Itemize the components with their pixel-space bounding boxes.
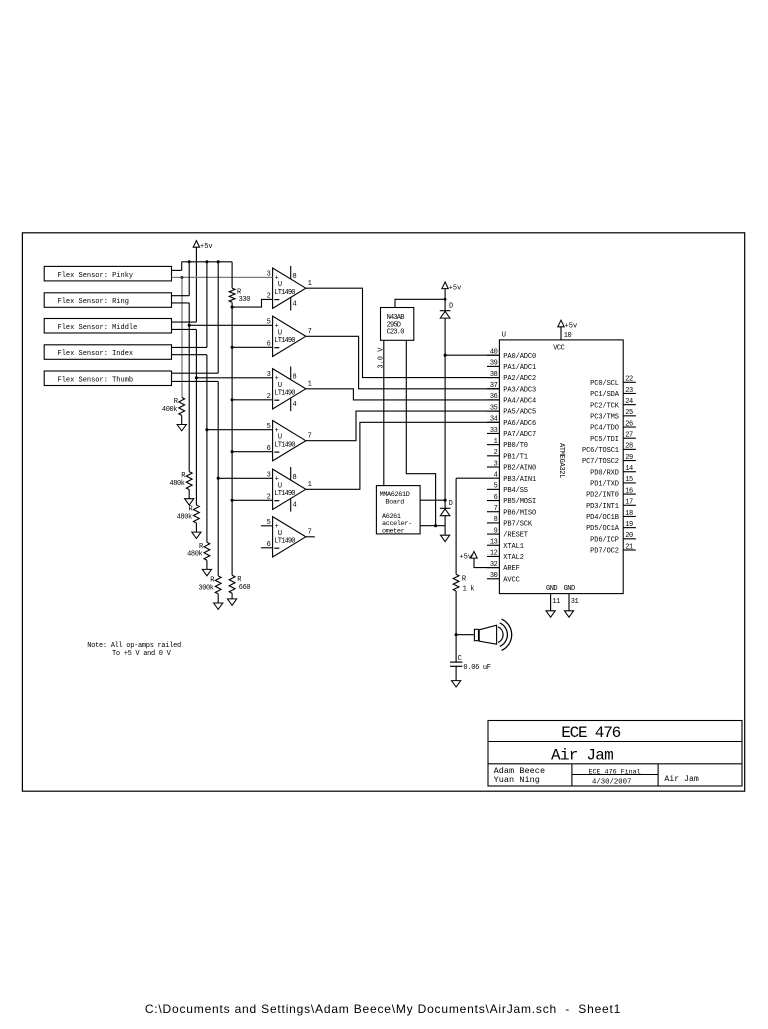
svg-text:PD3/INT1: PD3/INT1 — [586, 503, 619, 511]
svg-text:10: 10 — [564, 332, 572, 340]
svg-text:PB0/T0: PB0/T0 — [503, 442, 528, 450]
svg-text:LT1490: LT1490 — [274, 490, 295, 498]
svg-text:26: 26 — [625, 420, 633, 428]
svg-text:4: 4 — [293, 301, 297, 309]
svg-text:22: 22 — [625, 376, 633, 384]
svg-text:PB2/AIN0: PB2/AIN0 — [503, 465, 536, 473]
svg-text:19: 19 — [625, 521, 633, 529]
svg-text:660: 660 — [239, 584, 251, 592]
svg-text:1: 1 — [308, 380, 312, 388]
svg-text:Flex Sensor: Index: Flex Sensor: Index — [58, 350, 134, 358]
svg-text:PA7/ADC7: PA7/ADC7 — [503, 431, 536, 439]
svg-text:PD4/OC1B: PD4/OC1B — [586, 514, 619, 522]
svg-text:PA3/ADC3: PA3/ADC3 — [503, 386, 536, 394]
svg-text:PC6/TOSC1: PC6/TOSC1 — [582, 447, 619, 455]
svg-text:18: 18 — [625, 510, 633, 518]
svg-text:Air Jam: Air Jam — [551, 747, 613, 765]
svg-text:8: 8 — [293, 474, 297, 482]
svg-text:To +5 V and 0 V: To +5 V and 0 V — [112, 650, 172, 658]
svg-text:38: 38 — [490, 371, 498, 379]
svg-text:1: 1 — [308, 481, 312, 489]
svg-text:LT1490: LT1490 — [274, 289, 295, 297]
svg-text:PD7/OC2: PD7/OC2 — [590, 548, 619, 556]
svg-text:29: 29 — [625, 454, 633, 462]
svg-text:3: 3 — [494, 460, 498, 468]
svg-text:PC1/SDA: PC1/SDA — [590, 391, 620, 399]
svg-text:PD2/INT0: PD2/INT0 — [586, 492, 619, 500]
svg-text:17: 17 — [625, 499, 633, 507]
svg-text:9: 9 — [494, 527, 498, 535]
svg-text:PA2/ADC2: PA2/ADC2 — [503, 375, 536, 383]
svg-text:U: U — [502, 332, 506, 340]
svg-text:15: 15 — [625, 476, 633, 484]
svg-text:PA6/ADC6: PA6/ADC6 — [503, 420, 536, 428]
svg-text:PD0/RXD: PD0/RXD — [590, 469, 619, 477]
svg-text:7: 7 — [308, 432, 312, 440]
svg-text:ECE 476: ECE 476 — [561, 724, 620, 742]
svg-text:ometer: ometer — [382, 527, 405, 535]
svg-text:1: 1 — [494, 438, 498, 446]
svg-text:PC3/TMS: PC3/TMS — [590, 413, 619, 421]
svg-text:4/30/2007: 4/30/2007 — [592, 778, 631, 786]
svg-text:+5v: +5v — [459, 553, 472, 561]
svg-text:Flex Sensor: Ring: Flex Sensor: Ring — [58, 298, 129, 306]
svg-text:400k: 400k — [162, 406, 177, 414]
svg-text:23: 23 — [625, 387, 633, 395]
svg-text:PB4/SS: PB4/SS — [503, 487, 528, 495]
svg-text:8: 8 — [293, 273, 297, 281]
svg-text:Flex Sensor: Middle: Flex Sensor: Middle — [58, 324, 138, 332]
svg-text:PA1/ADC1: PA1/ADC1 — [503, 364, 536, 372]
svg-text:XTAL1: XTAL1 — [503, 543, 524, 551]
svg-text:1 k: 1 k — [463, 586, 475, 594]
svg-text:PC4/TDO: PC4/TDO — [590, 425, 619, 433]
svg-text:480k: 480k — [187, 551, 202, 559]
svg-text:Air Jam: Air Jam — [664, 774, 698, 784]
svg-text:7: 7 — [308, 328, 312, 336]
svg-text:XTAL2: XTAL2 — [503, 554, 524, 562]
svg-text:PC0/SCL: PC0/SCL — [590, 380, 619, 388]
svg-text:PC2/TCK: PC2/TCK — [590, 402, 620, 410]
svg-text:PC7/TOSC2: PC7/TOSC2 — [582, 458, 619, 466]
svg-text:11: 11 — [552, 598, 560, 606]
svg-text:PD6/ICP: PD6/ICP — [590, 536, 619, 544]
svg-text:40: 40 — [490, 349, 498, 357]
svg-text:300k: 300k — [198, 584, 213, 592]
svg-text:20: 20 — [625, 532, 633, 540]
svg-text:D: D — [449, 500, 453, 508]
svg-text:+5v: +5v — [565, 323, 578, 331]
svg-text:14: 14 — [625, 465, 633, 473]
svg-text:PA0/ADC0: PA0/ADC0 — [503, 353, 536, 361]
svg-text:21: 21 — [625, 543, 633, 551]
svg-text:2: 2 — [494, 449, 498, 457]
svg-text:+5v: +5v — [449, 284, 462, 292]
svg-text:330: 330 — [239, 296, 251, 304]
svg-text:LT1490: LT1490 — [274, 441, 295, 449]
svg-text:39: 39 — [490, 360, 498, 368]
svg-text:30: 30 — [490, 572, 498, 580]
svg-text:PD5/OC1A: PD5/OC1A — [586, 525, 620, 533]
svg-text:AVCC: AVCC — [503, 576, 519, 584]
svg-text:7: 7 — [308, 528, 312, 536]
svg-text:35: 35 — [490, 404, 498, 412]
svg-text:5: 5 — [494, 483, 498, 491]
svg-text:LT1490: LT1490 — [274, 337, 295, 345]
svg-text:8: 8 — [494, 516, 498, 524]
svg-text:16: 16 — [625, 487, 633, 495]
svg-text:34: 34 — [490, 416, 498, 424]
svg-text:28: 28 — [625, 443, 633, 451]
svg-text:Flex Sensor: Thumb: Flex Sensor: Thumb — [58, 376, 134, 384]
svg-text:PB5/MOSI: PB5/MOSI — [503, 498, 536, 506]
svg-text:PC5/TDI: PC5/TDI — [590, 436, 619, 444]
svg-text:7: 7 — [494, 505, 498, 513]
svg-text:LT1490: LT1490 — [274, 389, 295, 397]
svg-text:8: 8 — [293, 374, 297, 382]
svg-text:ATMEGA32L: ATMEGA32L — [557, 443, 565, 478]
svg-text:PB6/MISO: PB6/MISO — [503, 509, 536, 517]
svg-text:12: 12 — [490, 550, 498, 558]
svg-text:25: 25 — [625, 409, 633, 417]
svg-text:VCC: VCC — [553, 344, 564, 352]
svg-text:Note: All op-amps railed: Note: All op-amps railed — [87, 642, 181, 650]
svg-text:27: 27 — [625, 432, 633, 440]
svg-text:+5v: +5v — [200, 243, 213, 251]
svg-text:24: 24 — [625, 398, 633, 406]
svg-text:480k: 480k — [169, 480, 184, 488]
svg-text:C23.0: C23.0 — [387, 329, 405, 337]
svg-text:31: 31 — [571, 598, 579, 606]
svg-text:PB1/T1: PB1/T1 — [503, 453, 528, 461]
svg-text:13: 13 — [490, 539, 498, 547]
svg-text:PA4/ADC4: PA4/ADC4 — [503, 398, 536, 406]
svg-text:Flex Sensor: Pinky: Flex Sensor: Pinky — [58, 272, 134, 280]
svg-text:Yuan Ning: Yuan Ning — [494, 775, 540, 785]
svg-text:PB3/AIN1: PB3/AIN1 — [503, 476, 536, 484]
svg-text:AREF: AREF — [503, 565, 519, 573]
svg-text:/RESET: /RESET — [503, 532, 528, 540]
svg-text:37: 37 — [490, 382, 498, 390]
svg-text:LT1490: LT1490 — [274, 537, 295, 545]
svg-text:PA5/ADC5: PA5/ADC5 — [503, 409, 536, 417]
svg-text:PB7/SCK: PB7/SCK — [503, 521, 533, 529]
svg-text:480k: 480k — [177, 513, 192, 521]
svg-text:Board: Board — [385, 498, 404, 506]
svg-text:4: 4 — [293, 502, 297, 510]
svg-text:PD1/TXD: PD1/TXD — [590, 481, 619, 489]
svg-text:ECE 476 Final: ECE 476 Final — [589, 768, 641, 776]
svg-text:D: D — [449, 303, 453, 311]
svg-text:C:\Documents and Settings\Adam: C:\Documents and Settings\Adam Beece\My … — [145, 1002, 621, 1016]
svg-text:GND: GND — [546, 585, 557, 593]
svg-text:4: 4 — [293, 401, 297, 409]
svg-text:36: 36 — [490, 393, 498, 401]
svg-text:33: 33 — [490, 427, 498, 435]
svg-text:GND: GND — [564, 585, 575, 593]
svg-text:1: 1 — [308, 280, 312, 288]
svg-text:0.06 uF: 0.06 uF — [463, 664, 490, 672]
svg-text:6: 6 — [494, 494, 498, 502]
